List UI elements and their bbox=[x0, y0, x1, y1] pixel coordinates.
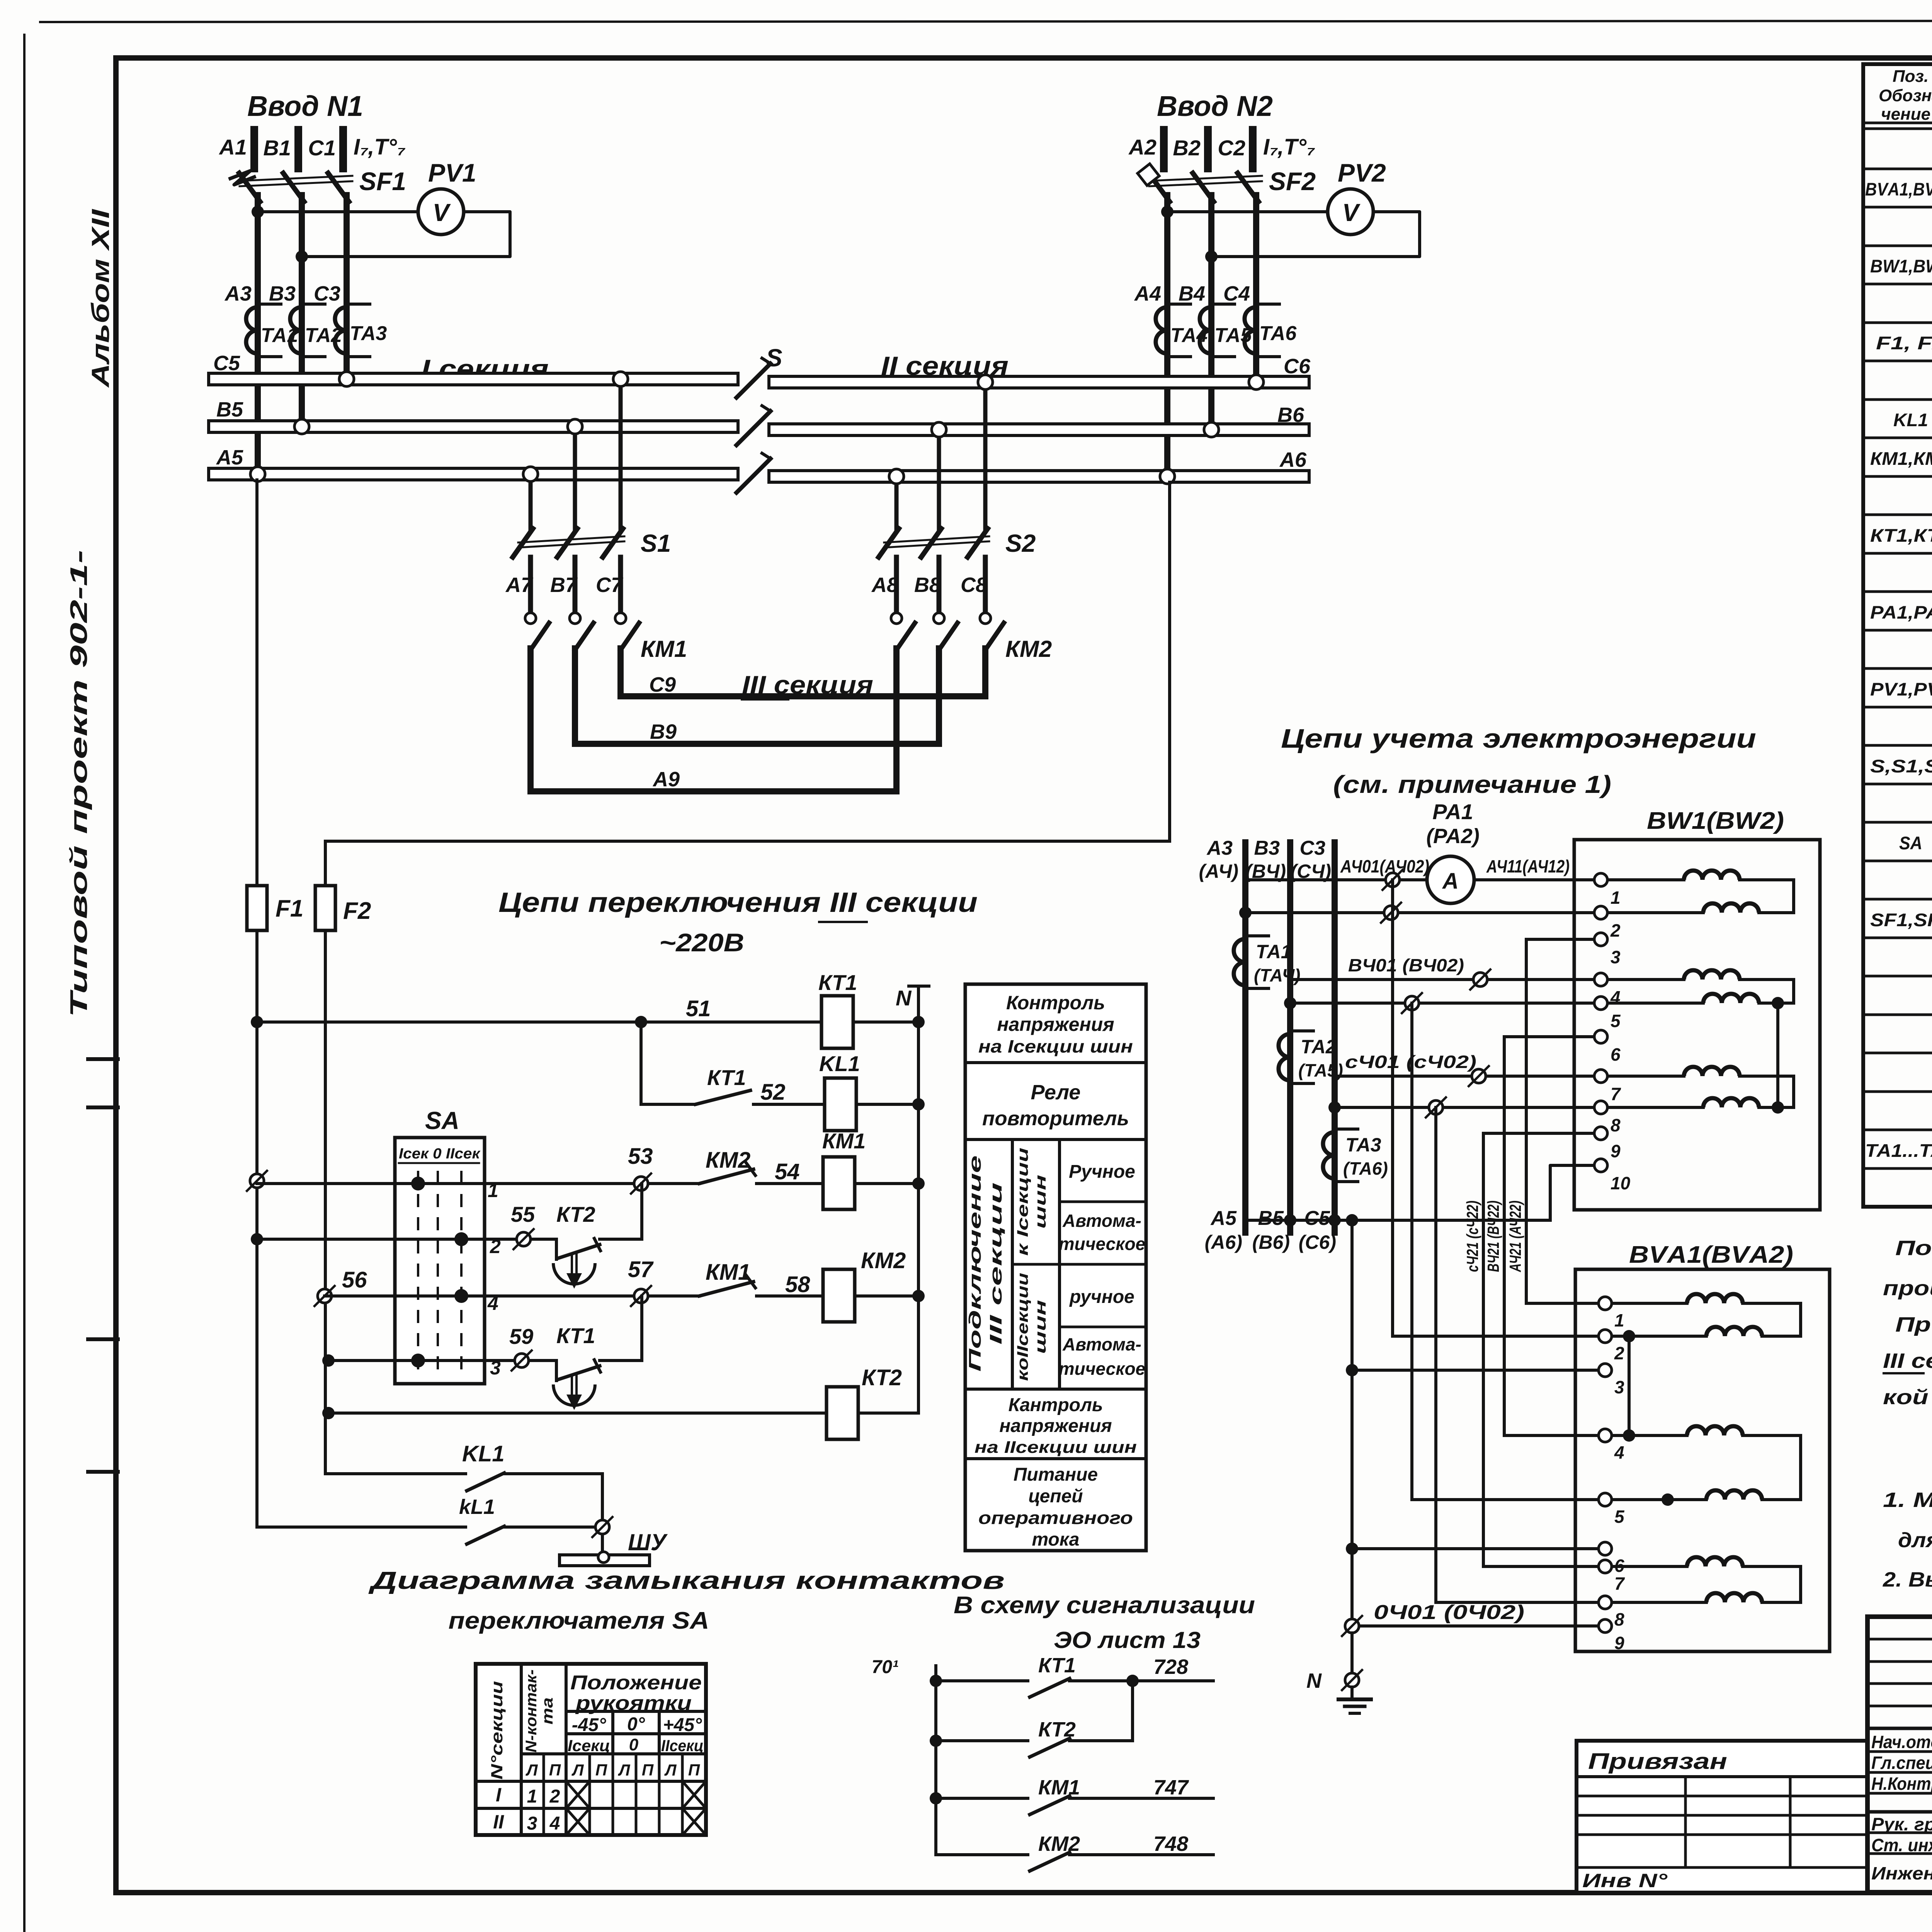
wire control feed from bus A5 bbox=[255, 480, 259, 886]
svg-text:П: П bbox=[642, 1761, 654, 1779]
svg-text:сЧ21 (сЧ22): сЧ21 (сЧ22) bbox=[1463, 1201, 1481, 1272]
svg-text:0Ч01 (0Ч02): 0Ч01 (0Ч02) bbox=[1374, 1601, 1524, 1624]
svg-text:В3: В3 bbox=[269, 282, 296, 305]
parts row 25: ТУ 16.522.028-74 bbox=[1863, 1090, 1932, 1093]
BW1 pin 5 bbox=[1594, 997, 1607, 1010]
svg-text:51: 51 bbox=[686, 996, 711, 1021]
svg-text:Рук. гр.: Рук. гр. bbox=[1871, 1814, 1932, 1834]
svg-text:S,S1,S2: S,S1,S2 bbox=[1870, 756, 1932, 776]
svg-text:Цепи переключения III секции: Цепи переключения III секции bbox=[498, 887, 978, 918]
wire В8 down to section III bbox=[936, 648, 942, 744]
svg-text:В3: В3 bbox=[1254, 837, 1280, 859]
phase stub В1 bbox=[294, 130, 302, 168]
parts row 10: Реле РВП72-3222-00У4,~220В bbox=[1863, 514, 1932, 516]
svg-text:57: 57 bbox=[628, 1257, 654, 1282]
svg-text:55: 55 bbox=[511, 1202, 535, 1226]
BVA1 pin 4 bbox=[1599, 1429, 1612, 1442]
svg-text:1: 1 bbox=[1614, 1310, 1624, 1330]
svg-text:3: 3 bbox=[490, 1357, 501, 1379]
svg-text:(С6): (С6) bbox=[1299, 1231, 1336, 1253]
svg-text:Диаграмма замыкания контакто: Диаграмма замыкания контактов bbox=[368, 1566, 1005, 1594]
parts table bottom bbox=[1863, 1205, 1932, 1209]
svg-text:F1: F1 bbox=[276, 895, 303, 922]
svg-text:КМ1,КМ2: КМ1,КМ2 bbox=[1870, 448, 1932, 469]
svg-text:При исчезновении напряжения: При исчезновении напряжения на этой секц… bbox=[1895, 1313, 1932, 1336]
wire N vertical bbox=[917, 986, 920, 1413]
parts row 15: 50Гц, ТУ 25.04.-1058-74 bbox=[1863, 706, 1932, 709]
BW1 winding C1 bbox=[1609, 1075, 1684, 1078]
phase conductor В1 vertical bbox=[299, 195, 305, 425]
svg-text:PV2: PV2 bbox=[1338, 158, 1386, 187]
svg-text:Цепи учета электроэнергии: Цепи учета электроэнергии bbox=[1281, 723, 1756, 753]
svg-text:КТ2: КТ2 bbox=[556, 1202, 595, 1226]
phase conductor А2 vertical bbox=[1164, 195, 1170, 472]
BVA1 winding A2 bbox=[1613, 1335, 1706, 1338]
svg-text:КМ2: КМ2 bbox=[1038, 1832, 1080, 1855]
svg-text:рукоятки: рукоятки bbox=[575, 1692, 692, 1714]
svg-text:Гл.спец.: Гл.спец. bbox=[1871, 1753, 1932, 1773]
BW1 internal connection bbox=[1776, 1003, 1779, 1107]
svg-text:Ввод N1: Ввод N1 bbox=[247, 90, 363, 122]
svg-text:В4: В4 bbox=[1179, 282, 1205, 305]
svg-text:V: V bbox=[433, 199, 451, 226]
svg-text:В9: В9 bbox=[650, 720, 677, 743]
svg-text:В схему сигнализации: В схему сигнализации bbox=[954, 1592, 1255, 1619]
svg-text:Ст. инж: Ст. инж bbox=[1871, 1835, 1932, 1855]
svg-text:переключателя SА: переключателя SА bbox=[449, 1607, 709, 1634]
wire А8 to contactor bbox=[894, 557, 899, 613]
svg-text:8: 8 bbox=[1614, 1609, 1624, 1629]
svg-text:к Iсекции: к Iсекции bbox=[1014, 1148, 1031, 1256]
svg-text:Инв N°: Инв N° bbox=[1582, 1870, 1668, 1891]
svg-text:чение: чение bbox=[1881, 105, 1930, 124]
svg-text:KL1: KL1 bbox=[819, 1051, 860, 1076]
annotation table caption box bbox=[965, 984, 1146, 1551]
terminal ШУ bbox=[595, 1520, 609, 1534]
svg-text:Ручное: Ручное bbox=[1069, 1162, 1135, 1182]
wire C421(C422) from BW pin9 bbox=[1483, 1132, 1601, 1135]
svg-text:повторитель: повторитель bbox=[982, 1107, 1129, 1130]
parts row 5: Предохранитель ПРС-20У3-П bbox=[1863, 321, 1932, 324]
svg-text:В1: В1 bbox=[263, 136, 291, 160]
svg-text:оперативного: оперативного bbox=[978, 1508, 1133, 1528]
svg-text:BW1,BW2: BW1,BW2 bbox=[1870, 256, 1932, 276]
title block frame bbox=[1867, 1617, 1932, 1893]
svg-text:Автома-: Автома- bbox=[1062, 1211, 1141, 1231]
node B2-B6 bbox=[1204, 422, 1219, 437]
svg-text:2: 2 bbox=[490, 1236, 501, 1257]
parts row 21: 50Гц, номинальный ток терм bbox=[1863, 937, 1932, 939]
wire А7 down to section III bbox=[527, 648, 534, 791]
phase conductor С1 vertical bbox=[344, 195, 350, 377]
BVA1 winding B1 bbox=[1613, 1434, 1687, 1437]
contact KL1 upper bbox=[467, 1473, 504, 1491]
svg-text:РА1,РА2: РА1,РА2 bbox=[1870, 602, 1932, 622]
svg-text:0: 0 bbox=[629, 1735, 639, 1754]
parts row 3: Счетчик активной энергии bbox=[1863, 245, 1932, 247]
parts row 18: Переключатель УП5311-С225 bbox=[1863, 821, 1932, 824]
wire control feed from bus A6 bbox=[1168, 482, 1171, 841]
parts row 19: вольверного типа, ТУ16.52 bbox=[1863, 860, 1932, 862]
svg-text:Подключение III секции к: Подключение III секции к одной из секций… bbox=[1895, 1236, 1932, 1260]
BW1 winding C2 bbox=[1609, 1106, 1703, 1109]
wire bus drop С7 bbox=[619, 385, 623, 529]
svg-text:Положение: Положение bbox=[570, 1672, 702, 1694]
svg-text:70¹: 70¹ bbox=[872, 1657, 898, 1677]
svg-text:BVА1,BVА2: BVА1,BVА2 bbox=[1865, 179, 1932, 199]
wire PV1 loop bbox=[302, 212, 510, 257]
svg-text:В5: В5 bbox=[216, 398, 243, 421]
svg-text:S1: S1 bbox=[641, 529, 671, 557]
svg-text:Iсекц: Iсекц bbox=[568, 1736, 610, 1755]
wire drop B421 to BVA pin5 bbox=[1410, 1003, 1413, 1500]
parts row 11: ТУ 16.523.472-74 bbox=[1863, 552, 1932, 555]
svg-text:56: 56 bbox=[342, 1267, 367, 1293]
parts row 17: ТУ 16.525.005-74 bbox=[1863, 783, 1932, 786]
svg-text:3: 3 bbox=[527, 1813, 537, 1834]
phase conductor А1 vertical bbox=[255, 195, 261, 472]
svg-text:Подключение: Подключение bbox=[966, 1155, 985, 1372]
svg-text:N: N bbox=[1306, 1669, 1322, 1692]
BW1 winding A2 bbox=[1609, 911, 1703, 914]
BW1 pin 3 bbox=[1594, 933, 1607, 946]
svg-text:F2: F2 bbox=[343, 898, 371, 924]
phase stub В2 bbox=[1204, 130, 1212, 168]
svg-text:Привязан: Привязан bbox=[1588, 1749, 1727, 1774]
svg-text:С3: С3 bbox=[1300, 837, 1326, 859]
svg-text:(ТАЧ): (ТАЧ) bbox=[1254, 965, 1300, 985]
parts row 16: Рубильник Р11-35320-00У3, bbox=[1863, 744, 1932, 747]
svg-text:ВЧ21 (ВЧ22): ВЧ21 (ВЧ22) bbox=[1484, 1201, 1502, 1272]
svg-text:ТА6: ТА6 bbox=[1259, 322, 1297, 345]
svg-text:Поз.: Поз. bbox=[1893, 67, 1929, 86]
svg-text:ТА3: ТА3 bbox=[350, 322, 387, 345]
title block upper grid bbox=[1867, 1638, 1932, 1641]
contactor КМ2 main contacts bbox=[896, 623, 915, 650]
svg-text:напряжения: напряжения bbox=[997, 1014, 1114, 1035]
svg-text:та: та bbox=[539, 1697, 556, 1725]
wire С8 down to section III bbox=[982, 648, 988, 696]
svg-text:РА1: РА1 bbox=[1432, 799, 1473, 824]
page margin line top bbox=[40, 20, 1932, 22]
wire С7 down to section III bbox=[617, 648, 624, 696]
svg-text:54: 54 bbox=[775, 1159, 800, 1184]
svg-text:kL1: kL1 bbox=[459, 1495, 495, 1519]
svg-text:I₇,T°₇: I₇,T°₇ bbox=[354, 134, 405, 160]
svg-text:I₇,T°₇: I₇,T°₇ bbox=[1263, 134, 1315, 160]
svg-text:А: А bbox=[1442, 869, 1459, 894]
svg-text:Iсек 0 IIсек: Iсек 0 IIсек bbox=[399, 1146, 481, 1162]
svg-text:N: N bbox=[896, 986, 912, 1010]
svg-text:F1, F2: F1, F2 bbox=[1876, 333, 1932, 353]
BW1 pin 9 bbox=[1594, 1127, 1607, 1140]
svg-text:1: 1 bbox=[1611, 888, 1621, 908]
wire С7 to contactor bbox=[618, 557, 623, 613]
svg-text:П: П bbox=[549, 1761, 561, 1779]
svg-text:9: 9 bbox=[1611, 1141, 1621, 1161]
svg-text:Л: Л bbox=[571, 1761, 584, 1779]
svg-text:КМ2: КМ2 bbox=[706, 1148, 750, 1173]
wire bus drop В8 bbox=[937, 435, 941, 529]
svg-text:КТ1: КТ1 bbox=[818, 970, 857, 995]
svg-text:А4: А4 bbox=[1134, 282, 1161, 305]
contact KM1 signal bbox=[930, 1792, 942, 1804]
svg-text:КТ1: КТ1 bbox=[556, 1323, 595, 1348]
svg-text:S2: S2 bbox=[1005, 529, 1036, 557]
svg-text:SА: SА bbox=[1899, 833, 1922, 853]
svg-text:748: 748 bbox=[1153, 1832, 1188, 1855]
svg-text:С6: С6 bbox=[1284, 355, 1311, 378]
svg-text:производится с помощью пере: производится с помощью переключателя SА. bbox=[1883, 1277, 1932, 1300]
metering CT TA1(TA4) bbox=[1234, 939, 1245, 985]
svg-text:А9: А9 bbox=[652, 768, 680, 791]
wire C-return bbox=[1328, 1101, 1341, 1114]
svg-text:шин: шин bbox=[1032, 1300, 1049, 1354]
svg-text:BVА1(BVА2): BVА1(BVА2) bbox=[1629, 1242, 1793, 1268]
svg-text:SF1,SF2: SF1,SF2 bbox=[1870, 910, 1932, 930]
BW1 pin 2 bbox=[1594, 906, 1607, 919]
parts row 24: bbox=[1863, 1052, 1932, 1054]
SA diagram table lines bbox=[520, 1664, 523, 1835]
svg-text:для цепей учета электроэнер: для цепей учета электроэнергии ввода N2. bbox=[1898, 1529, 1932, 1552]
svg-text:III секции: III секции bbox=[986, 1182, 1005, 1345]
svg-text:Ввод N2: Ввод N2 bbox=[1157, 90, 1273, 122]
wire PV1 phase A bbox=[252, 206, 264, 218]
svg-text:А1: А1 bbox=[218, 135, 247, 159]
svg-text:58: 58 bbox=[785, 1272, 810, 1297]
svg-text:1: 1 bbox=[527, 1786, 537, 1807]
svg-text:N°секции: N°секции bbox=[488, 1681, 506, 1780]
svg-text:4: 4 bbox=[487, 1293, 498, 1314]
svg-text:АЧ11(АЧ12): АЧ11(АЧ12) bbox=[1486, 856, 1570, 876]
binding table bbox=[1577, 1741, 1867, 1893]
svg-text:ручное: ручное bbox=[1069, 1287, 1134, 1307]
SA contact position dots bbox=[411, 1177, 425, 1190]
svg-text:ШУ: ШУ bbox=[628, 1529, 668, 1555]
parts row 8: Пускатель ПМА-6100У4, 22 bbox=[1863, 437, 1932, 439]
node C1-C5 bbox=[339, 372, 354, 386]
BVA1 pin 9 bbox=[1599, 1619, 1612, 1633]
svg-text:ТА1...ТА6: ТА1...ТА6 bbox=[1865, 1140, 1932, 1161]
node A2-A6 bbox=[1160, 469, 1175, 484]
wire N neutral bbox=[1350, 1220, 1354, 1626]
wire С8 to contactor bbox=[983, 557, 988, 613]
parts row 22: bbox=[1863, 975, 1932, 978]
svg-text:Нач.отд: Нач.отд bbox=[1871, 1732, 1932, 1752]
svg-text:PV1: PV1 bbox=[428, 158, 476, 187]
svg-text:(В6): (В6) bbox=[1252, 1231, 1290, 1253]
svg-text:Типовой проект 902-1-: Типовой проект 902-1- bbox=[66, 550, 92, 1017]
BVA1 winding B2 bbox=[1613, 1469, 1706, 1500]
svg-text:5: 5 bbox=[1614, 1507, 1625, 1527]
svg-text:BW1(BW2): BW1(BW2) bbox=[1647, 808, 1784, 834]
svg-text:6: 6 bbox=[1611, 1044, 1621, 1065]
node B1-B5 bbox=[294, 419, 309, 434]
svg-text:3: 3 bbox=[1611, 947, 1621, 967]
svg-text:(см. примечание 1): (см. примечание 1) bbox=[1333, 770, 1611, 798]
svg-text:Н.Контр: Н.Контр bbox=[1871, 1774, 1932, 1794]
BVA1 pin 2 bbox=[1599, 1330, 1612, 1343]
wire A421(A422) from BW pin3 bbox=[1526, 938, 1601, 941]
contactor КМ1 main contacts bbox=[531, 623, 549, 650]
svg-text:КМ1: КМ1 bbox=[641, 636, 687, 662]
svg-text:А3: А3 bbox=[224, 282, 252, 305]
svg-text:на Iсекции шин: на Iсекции шин bbox=[978, 1036, 1133, 1056]
svg-text:КМ1: КМ1 bbox=[1038, 1776, 1080, 1799]
svg-text:ТА1: ТА1 bbox=[1256, 941, 1292, 963]
svg-text:V: V bbox=[1342, 199, 1361, 226]
svg-text:А5: А5 bbox=[1210, 1207, 1237, 1230]
wire PV2 loop bbox=[1211, 212, 1420, 257]
svg-text:Л: Л bbox=[664, 1761, 677, 1779]
svg-text:А6: А6 bbox=[1279, 448, 1307, 471]
BVA1 pin 1 bbox=[1599, 1297, 1612, 1310]
parts row 9: ТУ 16.526.391-75 bbox=[1863, 475, 1932, 478]
wire А7 to contactor bbox=[528, 557, 533, 613]
svg-text:ЭО лист 13: ЭО лист 13 bbox=[1054, 1627, 1201, 1653]
wire rung2 up to rung1 bbox=[600, 1238, 642, 1241]
svg-text:С9: С9 bbox=[649, 673, 676, 696]
svg-text:2: 2 bbox=[1610, 920, 1621, 940]
svg-text:728: 728 bbox=[1153, 1655, 1188, 1679]
svg-text:напряжения: напряжения bbox=[999, 1416, 1112, 1436]
svg-text:9: 9 bbox=[1614, 1633, 1624, 1653]
svg-text:тическое: тическое bbox=[1059, 1359, 1146, 1379]
wire A-return bbox=[1239, 906, 1252, 919]
svg-text:тока: тока bbox=[1032, 1529, 1080, 1550]
metering CT TA3(TA6) bbox=[1323, 1132, 1335, 1179]
svg-text:~220В: ~220В bbox=[659, 928, 744, 957]
BVA1 pin 3 bbox=[1599, 1364, 1612, 1377]
contact kl1 lower bbox=[467, 1526, 504, 1544]
BVA1 pin 5 bbox=[1599, 1493, 1612, 1506]
BVA1 pin 8 bbox=[1599, 1596, 1612, 1609]
wire В7 to contactor bbox=[573, 557, 578, 613]
border tick marks bbox=[88, 1057, 118, 1061]
BVA1 winding C2 bbox=[1613, 1601, 1706, 1604]
parts row 1: Счетчик реактивной энерг bbox=[1863, 168, 1932, 170]
node A1-A5 bbox=[250, 467, 265, 481]
svg-text:(АЧ): (АЧ) bbox=[1199, 861, 1238, 882]
parts row 4: bbox=[1863, 283, 1932, 286]
wire B-return bbox=[1284, 997, 1296, 1009]
svg-text:С4: С4 bbox=[1223, 282, 1250, 305]
svg-text:SF2: SF2 bbox=[1269, 167, 1316, 196]
page margin line left bbox=[23, 35, 26, 1932]
wire bus drop А7 bbox=[529, 480, 533, 529]
parts row 26: bbox=[1863, 1129, 1932, 1131]
parts row 12: bbox=[1863, 590, 1932, 593]
svg-text:А5: А5 bbox=[216, 446, 243, 469]
svg-text:КТ2: КТ2 bbox=[862, 1365, 902, 1390]
svg-text:(ТА6): (ТА6) bbox=[1343, 1158, 1388, 1179]
phase conductor С2 vertical bbox=[1253, 195, 1259, 377]
svg-text:KL1: KL1 bbox=[462, 1441, 505, 1466]
wire rung4 bbox=[322, 1354, 335, 1367]
svg-text:SF1: SF1 bbox=[359, 167, 406, 196]
svg-text:КМ2: КМ2 bbox=[861, 1248, 906, 1273]
svg-text:Инжен.: Инжен. bbox=[1871, 1863, 1932, 1883]
svg-text:А2: А2 bbox=[1128, 135, 1156, 159]
svg-text:7: 7 bbox=[1611, 1084, 1621, 1104]
wire bus drop А8 bbox=[895, 482, 899, 529]
svg-text:коIIсекции: коIIсекции bbox=[1014, 1273, 1031, 1381]
svg-text:SА: SА bbox=[425, 1107, 459, 1134]
svg-text:(А6): (А6) bbox=[1205, 1231, 1242, 1253]
wire 52 branch bbox=[635, 1016, 647, 1028]
parts row 23: bbox=[1863, 1014, 1932, 1016]
parts row 14: Вольтметр Э377, предел изм bbox=[1863, 667, 1932, 670]
svg-text:В5: В5 bbox=[1258, 1207, 1284, 1230]
BVA1 winding A1 bbox=[1613, 1302, 1687, 1305]
parts row 20: bbox=[1863, 898, 1932, 901]
svg-text:П: П bbox=[595, 1761, 607, 1779]
svg-text:Реле: Реле bbox=[1031, 1081, 1081, 1104]
svg-text:2: 2 bbox=[1614, 1343, 1624, 1363]
svg-text:+45°: +45° bbox=[663, 1715, 702, 1735]
svg-text:С2: С2 bbox=[1218, 136, 1245, 160]
knife switch S1 bbox=[513, 529, 533, 557]
svg-text:52: 52 bbox=[760, 1080, 786, 1105]
wire А8 down to section III bbox=[893, 648, 900, 791]
parts row 13: bbox=[1863, 629, 1932, 632]
wire rung4 up to rung3 bbox=[600, 1359, 642, 1362]
svg-text:2: 2 bbox=[549, 1786, 560, 1807]
BW1 pin 6 bbox=[1594, 1030, 1607, 1043]
BVA1 winding C1 bbox=[1613, 1565, 1687, 1568]
wire B421(B422) from BW pin6 bbox=[1504, 1035, 1601, 1038]
svg-text:КМ2: КМ2 bbox=[1005, 636, 1052, 662]
svg-text:С1: С1 bbox=[308, 136, 336, 160]
svg-text:В2: В2 bbox=[1173, 136, 1201, 160]
circuit breaker SF1 bbox=[239, 173, 260, 202]
knife switch S2 bbox=[879, 529, 899, 557]
wire PV2 phase A bbox=[1161, 206, 1173, 218]
svg-text:1: 1 bbox=[488, 1180, 498, 1201]
svg-text:Контроль: Контроль bbox=[1006, 992, 1105, 1014]
svg-text:PV1,PV2: PV1,PV2 bbox=[1870, 679, 1932, 699]
wire В7 down to section III bbox=[572, 648, 578, 744]
parts table frame bbox=[1863, 64, 1932, 1207]
svg-text:КТ1: КТ1 bbox=[707, 1065, 746, 1090]
svg-text:7: 7 bbox=[1614, 1573, 1625, 1594]
svg-text:(РА2): (РА2) bbox=[1426, 825, 1480, 848]
wire rung3 57-58 bbox=[325, 1294, 641, 1298]
svg-text:АЧ21 (АЧ22): АЧ21 (АЧ22) bbox=[1506, 1201, 1524, 1272]
BW1 winding A1 bbox=[1609, 878, 1684, 881]
svg-text:КТ1: КТ1 bbox=[1038, 1654, 1076, 1677]
svg-text:747: 747 bbox=[1153, 1776, 1189, 1799]
wire drop A421 to BVA pin2 bbox=[1391, 880, 1394, 1336]
BW1 winding B1 bbox=[1609, 978, 1684, 981]
svg-text:Альбом ХII: Альбом ХII bbox=[87, 209, 114, 388]
svg-text:Автома-: Автома- bbox=[1062, 1334, 1141, 1354]
wire drop C421 to BVA pin8 bbox=[1434, 1107, 1437, 1602]
wire common return bottom bbox=[1245, 1219, 1550, 1222]
fuse F1 bbox=[247, 886, 267, 930]
BW1 pin 1 bbox=[1594, 873, 1607, 886]
svg-text:-45°: -45° bbox=[572, 1715, 606, 1735]
svg-text:С3: С3 bbox=[314, 282, 340, 305]
BW1 pin 7 bbox=[1594, 1070, 1607, 1083]
phase stub С1 bbox=[339, 130, 347, 168]
svg-text:4: 4 bbox=[1614, 1442, 1624, 1463]
BW1 pin 8 bbox=[1594, 1101, 1607, 1114]
svg-text:3: 3 bbox=[1614, 1377, 1624, 1397]
contact KT2 signal bbox=[930, 1675, 942, 1687]
svg-text:5: 5 bbox=[1611, 1011, 1621, 1031]
BVA1 internal connections bbox=[1628, 1336, 1631, 1435]
